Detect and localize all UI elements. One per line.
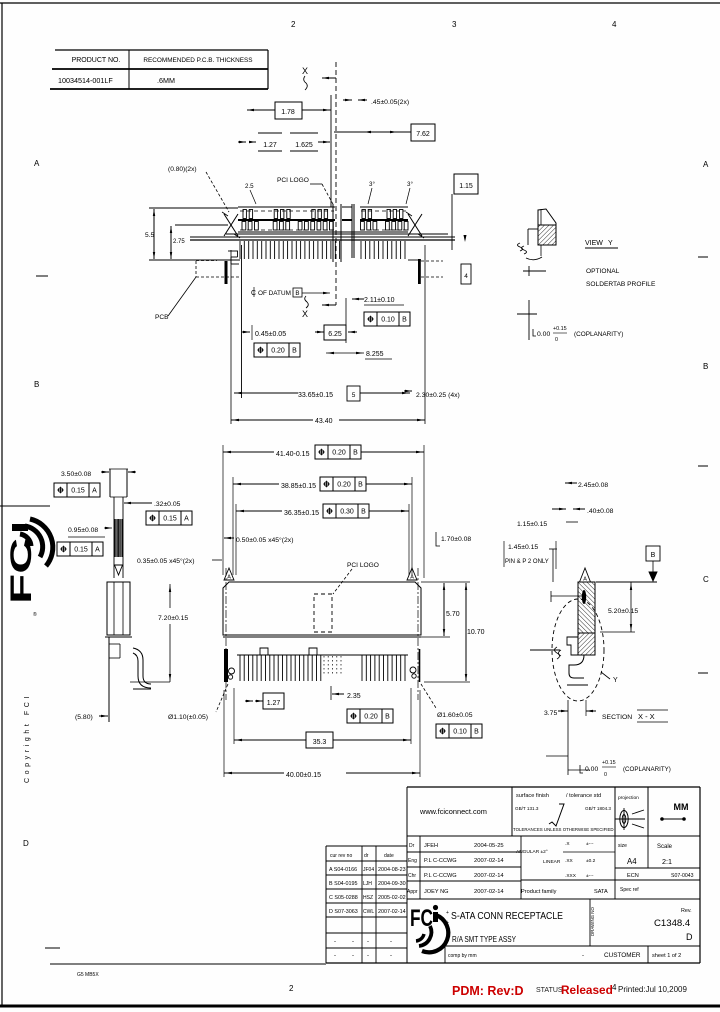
svg-text:1.27: 1.27 xyxy=(263,142,277,149)
sheet left border line xyxy=(1,3,3,1006)
dimension 7.62 boxed xyxy=(411,124,435,141)
svg-text:2.75: 2.75 xyxy=(173,239,185,245)
svg-text:0.45±0.05: 0.45±0.05 xyxy=(255,331,286,338)
svg-text:0: 0 xyxy=(604,772,607,778)
top view band inner bottom line xyxy=(226,233,448,235)
svg-text:(COPLANARITY): (COPLANARITY) xyxy=(623,766,671,773)
svg-text:+: + xyxy=(446,920,449,926)
svg-text:0.20: 0.20 xyxy=(364,714,378,721)
svg-text:0.20: 0.20 xyxy=(337,482,351,489)
middle view body outline xyxy=(223,582,421,635)
svg-text:38.85±0.15: 38.85±0.15 xyxy=(281,483,316,490)
top view break symbol right xyxy=(408,214,422,236)
dimension 38.85±0.15 with gdt xyxy=(233,483,279,485)
svg-text:SECTION: SECTION xyxy=(602,714,632,721)
middle view right peg bar xyxy=(419,649,421,682)
svg-text:1.625: 1.625 xyxy=(295,142,313,149)
svg-text:VIEW: VIEW xyxy=(585,240,603,247)
gdt frame 0.15 A below .32 xyxy=(146,511,192,525)
middle view datum A triangle left corner xyxy=(224,568,234,580)
svg-text:-: - xyxy=(390,939,392,945)
svg-text:S07-0043: S07-0043 xyxy=(671,873,694,879)
svg-text:2: 2 xyxy=(291,20,296,29)
top view right peg hidden lines dashed xyxy=(421,260,443,262)
svg-text:10.70: 10.70 xyxy=(467,629,485,636)
scale cell xyxy=(647,836,649,868)
title block outer frame xyxy=(407,786,700,788)
svg-text:comp by mm: comp by mm xyxy=(448,953,477,959)
svg-text:projection: projection xyxy=(618,795,639,801)
svg-text:Released: Released xyxy=(561,983,613,997)
svg-text:B: B xyxy=(358,482,363,489)
svg-text:dr: dr xyxy=(364,853,369,859)
middle view lead comb hidden dotted xyxy=(323,656,325,676)
svg-text:GB/T 131.3: GB/T 131.3 xyxy=(515,806,539,811)
top view band dashed pad line lower xyxy=(240,229,334,231)
svg-text:33.65±0.15: 33.65±0.15 xyxy=(298,392,333,399)
middle view key bump left xyxy=(260,648,268,655)
middle view lead comb top bar xyxy=(237,654,408,656)
svg-text:.XX: .XX xyxy=(565,858,574,864)
dimension 2.35 xyxy=(330,686,332,700)
svg-text:3°: 3° xyxy=(407,181,413,188)
svg-text:-: - xyxy=(390,953,392,959)
svg-text:PCB: PCB xyxy=(155,314,169,321)
svg-text:2007-02-14: 2007-02-14 xyxy=(378,909,406,915)
product table frame xyxy=(55,49,268,51)
svg-text:B: B xyxy=(474,729,479,736)
section line X-X vertical dashed centerline xyxy=(335,62,337,305)
svg-text:A: A xyxy=(703,160,709,169)
svg-text:Chr: Chr xyxy=(408,873,416,879)
gdt frame 0.15 A below 0.95 xyxy=(57,542,103,556)
dimension 2.30±0.25 (4x) xyxy=(405,390,412,392)
top view power pads upper row xyxy=(362,210,365,219)
dimension 5.70 right of body xyxy=(421,581,470,583)
svg-text:2007-02-14: 2007-02-14 xyxy=(474,889,504,895)
extension line for 1.78/1.625 xyxy=(330,95,332,207)
svg-text:-: - xyxy=(582,953,584,959)
svg-text:JOEY NG: JOEY NG xyxy=(424,889,448,895)
FCI logo title block xyxy=(410,905,448,952)
svg-text:C S05-0288: C S05-0288 xyxy=(329,895,358,901)
dimension 2.75 vertical xyxy=(170,226,172,259)
svg-text:2004-09-30: 2004-09-30 xyxy=(378,881,406,887)
view Y seating plane cross xyxy=(528,266,530,276)
svg-text:7.20±0.15: 7.20±0.15 xyxy=(158,615,188,622)
svg-text:ECN: ECN xyxy=(627,873,639,879)
svg-text:1.70±0.08: 1.70±0.08 xyxy=(441,536,471,543)
svg-text:2004-05-25: 2004-05-25 xyxy=(474,843,504,849)
svg-text:LINEAR: LINEAR xyxy=(543,859,561,865)
svg-text:10034514-001LF: 10034514-001LF xyxy=(58,76,113,85)
svg-text:JFEH: JFEH xyxy=(424,843,438,849)
section X-X contact lower hatched block xyxy=(578,633,595,655)
zone divider dash left lower xyxy=(45,947,60,949)
top view SMT lead comb right group xyxy=(360,241,362,259)
svg-text:PCI LOGO: PCI LOGO xyxy=(347,562,379,569)
dimension 1.15 boxed with leader xyxy=(454,174,478,194)
svg-text:Scale: Scale xyxy=(657,844,673,850)
dimension 1.27 xyxy=(258,132,282,134)
svg-text:X: X xyxy=(302,309,308,319)
svg-text:0.20: 0.20 xyxy=(332,450,346,457)
svg-text:P.L C-CCWG: P.L C-CCWG xyxy=(424,858,457,864)
svg-text:Eng: Eng xyxy=(408,858,417,864)
svg-text:®: ® xyxy=(33,611,37,618)
svg-text:0.00: 0.00 xyxy=(585,766,598,773)
svg-text:D: D xyxy=(23,839,29,848)
svg-text:CUSTOMER: CUSTOMER xyxy=(604,952,641,959)
middle view key bump right xyxy=(309,648,317,655)
top view band dashed pad line upper xyxy=(240,210,334,212)
dimension 35.3 boxed xyxy=(233,688,235,744)
projection cell xyxy=(614,787,616,836)
svg-text:+: + xyxy=(446,930,449,936)
view Y lead squiggle xyxy=(518,243,527,254)
view Y coplanarity centerline cross xyxy=(528,300,530,340)
section X-X datum A triangle on contact tip xyxy=(580,568,591,582)
svg-text:Y: Y xyxy=(608,240,613,247)
svg-text:2007-02-14: 2007-02-14 xyxy=(474,873,504,879)
PCI LOGO dashed rectangle xyxy=(314,594,332,632)
svg-text:±0.2: ±0.2 xyxy=(586,858,596,864)
svg-text:PCI LOGO: PCI LOGO xyxy=(277,177,309,184)
svg-text:PRODUCT NO.: PRODUCT NO. xyxy=(72,57,121,64)
svg-text:Printed:Jul 10,2009: Printed:Jul 10,2009 xyxy=(618,985,687,994)
revision table frame xyxy=(325,846,327,963)
svg-text:2.11±0.10: 2.11±0.10 xyxy=(364,297,395,304)
svg-text:B: B xyxy=(353,450,358,457)
sheet top border line xyxy=(0,2,720,4)
section X-X housing step xyxy=(567,637,578,655)
note flag 4 boxed xyxy=(461,264,471,284)
section arrow X top xyxy=(322,77,336,79)
svg-text:.40±0.08: .40±0.08 xyxy=(587,508,614,515)
svg-text:+0.15: +0.15 xyxy=(553,326,567,332)
view Y coplanarity dimension xyxy=(533,329,536,336)
svg-text:RECOMMENDED P.C.B. THICKNESS: RECOMMENDED P.C.B. THICKNESS xyxy=(143,57,252,64)
side profile inner blade xyxy=(113,497,115,578)
svg-text:A S04-0166: A S04-0166 xyxy=(329,867,357,873)
section X-X contact dimple xyxy=(582,590,586,604)
svg-text:2.5: 2.5 xyxy=(245,183,254,190)
gdt frame 0.15 A below 3.50 xyxy=(54,483,100,497)
top view signal pads lower row xyxy=(242,222,246,231)
FCI corporate logo left margin xyxy=(5,517,53,604)
dimension 5.20±0.15 xyxy=(596,581,635,583)
svg-text:0.50±0.05 x45°(2x): 0.50±0.05 x45°(2x) xyxy=(236,536,293,544)
svg-text:(COPLANARITY): (COPLANARITY) xyxy=(574,331,623,338)
side profile housing below xyxy=(108,637,110,722)
svg-text:D: D xyxy=(686,932,693,942)
side profile SMT lead xyxy=(133,648,151,684)
dimension 1.27 boxed middle view xyxy=(263,693,284,709)
svg-text:C: C xyxy=(251,290,256,297)
drawing number column divider xyxy=(589,899,591,946)
dimension 7.20±0.15 xyxy=(169,584,171,608)
svg-text:P.L C-CCWG: P.L C-CCWG xyxy=(424,873,457,879)
svg-text:1.15±0.15: 1.15±0.15 xyxy=(517,521,547,528)
svg-text:B: B xyxy=(651,552,656,559)
svg-text:PDM: Rev:D: PDM: Rev:D xyxy=(452,984,524,998)
svg-text:0.30: 0.30 xyxy=(340,509,354,516)
dimension 2.45±0.08 xyxy=(565,482,572,484)
dimension 1.70±0.08 xyxy=(436,532,440,546)
top view left peg hidden PCB edge dashed xyxy=(195,261,197,277)
section X-X dashed detail ellipse xyxy=(552,599,604,701)
dimension 36.35±0.15 with gdt xyxy=(236,510,282,512)
svg-text:36.35±0.15: 36.35±0.15 xyxy=(284,510,319,517)
datum B flag on seating plane xyxy=(646,546,660,561)
label Y with leader xyxy=(601,672,610,679)
svg-text:R/A SMT TYPE ASSY: R/A SMT TYPE ASSY xyxy=(452,935,517,944)
svg-text:/ tolerance std: / tolerance std xyxy=(566,793,601,799)
top view extension vertical below comb xyxy=(241,245,243,398)
svg-text:A4: A4 xyxy=(627,857,637,866)
svg-text:2: 2 xyxy=(289,984,294,993)
svg-text:G5 MB5X: G5 MB5X xyxy=(77,972,99,978)
middle view datum A triangle right corner xyxy=(407,568,417,580)
middle view peg centerline left xyxy=(225,568,227,700)
svg-text:SATA: SATA xyxy=(594,889,608,895)
svg-text:-: - xyxy=(352,953,354,959)
approval column grid xyxy=(419,836,421,899)
svg-text:A: A xyxy=(95,547,100,554)
dimension 41.40-0.15 with gdt xyxy=(223,451,274,453)
section X-X contact upper hatched xyxy=(578,582,595,633)
frame line above footer xyxy=(50,963,326,965)
svg-text:Copyright FCI: Copyright FCI xyxy=(24,693,31,783)
dimension 43.40 overall top view xyxy=(230,250,232,424)
dimension 5.5 vertical xyxy=(153,209,155,259)
svg-text:FC: FC xyxy=(5,538,38,604)
dimension 1.625 xyxy=(290,132,318,134)
svg-text:0.35±0.05 x45°(2x): 0.35±0.05 x45°(2x) xyxy=(137,557,194,565)
svg-text:(0.80)(2x): (0.80)(2x) xyxy=(168,166,197,173)
top view right retention peg xyxy=(408,259,421,261)
svg-text:B: B xyxy=(402,317,407,324)
svg-text:(5.80): (5.80) xyxy=(75,714,93,721)
svg-text:2005-02-02: 2005-02-02 xyxy=(378,895,406,901)
svg-text:HSZ: HSZ xyxy=(363,895,373,901)
svg-text:ANGULAR ±2°: ANGULAR ±2° xyxy=(516,849,548,855)
top view: body mid extension line xyxy=(175,224,228,226)
svg-text:-: - xyxy=(334,939,336,945)
svg-text:0.10: 0.10 xyxy=(381,317,395,324)
svg-text:0.15: 0.15 xyxy=(163,516,177,523)
dimension 10.70 right of body xyxy=(424,681,470,683)
section X-X seating plane line xyxy=(596,581,657,583)
svg-text:±---: ±--- xyxy=(586,873,594,879)
svg-text:A: A xyxy=(184,516,189,523)
svg-text:5: 5 xyxy=(352,392,356,399)
svg-text:C1348.4: C1348.4 xyxy=(654,918,691,929)
top view power pads lower row xyxy=(361,222,365,231)
svg-text:Ø1.60±0.05: Ø1.60±0.05 xyxy=(437,712,473,719)
svg-text:Rev.: Rev. xyxy=(681,908,692,914)
svg-text:5.5: 5.5 xyxy=(145,232,154,239)
svg-text:-: - xyxy=(334,953,336,959)
section X-X centerline below xyxy=(567,700,569,775)
svg-text:3: 3 xyxy=(452,20,457,29)
svg-text:JF04: JF04 xyxy=(363,867,374,873)
svg-text:1.45±0.15: 1.45±0.15 xyxy=(508,544,538,551)
gdt frame 0.20 B below 2.35 xyxy=(347,709,393,723)
side profile lower blade xyxy=(107,582,130,635)
svg-text:-: - xyxy=(352,939,354,945)
middle view lead comb left group xyxy=(239,655,241,681)
svg-text:A: A xyxy=(227,575,231,581)
svg-text:B: B xyxy=(295,290,299,297)
section arrow X bottom xyxy=(322,304,336,306)
svg-text:MM: MM xyxy=(674,802,689,812)
top view break symbol left xyxy=(224,214,238,236)
svg-text:3.50±0.08: 3.50±0.08 xyxy=(61,471,91,478)
svg-text:4: 4 xyxy=(612,20,617,29)
svg-text:B: B xyxy=(385,714,390,721)
zone divider dash left mid xyxy=(0,505,50,507)
svg-text:43.40: 43.40 xyxy=(315,418,333,425)
zone divider dash right upper xyxy=(698,256,708,258)
svg-text:Product family: Product family xyxy=(521,889,557,895)
svg-text:S-ATA CONN RECEPTACLE: S-ATA CONN RECEPTACLE xyxy=(451,911,563,922)
svg-text:2007-02-14: 2007-02-14 xyxy=(474,858,504,864)
svg-text:Ø1.10(±0.05): Ø1.10(±0.05) xyxy=(168,714,208,721)
svg-text:+: + xyxy=(446,910,449,916)
zone divider dash right mid xyxy=(698,465,708,467)
svg-text:PIN & P 2 ONLY: PIN & P 2 ONLY xyxy=(505,559,549,565)
svg-text:OF DATUM: OF DATUM xyxy=(258,290,291,297)
svg-text:X - X: X - X xyxy=(638,712,655,721)
svg-text:SOLDERTAB PROFILE: SOLDERTAB PROFILE xyxy=(586,281,656,288)
view Y tab bracket housing xyxy=(528,228,538,230)
section X-X bracket 1.45 extension xyxy=(552,549,554,582)
top view: pad-top extension line xyxy=(149,207,238,209)
svg-text:D S07-3063: D S07-3063 xyxy=(329,909,358,915)
svg-text:6.25: 6.25 xyxy=(328,331,342,338)
bottom row of title block xyxy=(445,945,700,947)
svg-text:2.45±0.08: 2.45±0.08 xyxy=(578,482,608,489)
side profile upper body xyxy=(109,469,111,497)
PCB surface line 1 xyxy=(190,236,455,238)
gdt frame 0.10 B below dia 1.60 xyxy=(436,724,482,738)
units cell MM xyxy=(647,787,649,836)
top view signal pads upper row xyxy=(243,210,246,219)
svg-text:GB/T 1804.3: GB/T 1804.3 xyxy=(585,806,611,811)
dimension .40±0.08 xyxy=(559,508,566,510)
middle view peg centerline right xyxy=(417,568,419,700)
section X-X dim pointer 1.15 xyxy=(551,595,584,597)
gdt frame 0.20 B below 0.45 xyxy=(254,343,300,357)
svg-text:B: B xyxy=(703,362,708,371)
leader dashed from left peg to dia 1.10 xyxy=(216,684,228,712)
svg-text:0.95±0.08: 0.95±0.08 xyxy=(68,527,98,534)
gdt frame 0.10 B below 2.11 xyxy=(364,312,410,326)
svg-text:.45±0.05(2x): .45±0.05(2x) xyxy=(371,99,409,106)
svg-text:A: A xyxy=(34,159,40,168)
svg-text:.X: .X xyxy=(565,841,570,847)
svg-text:cur rev no: cur rev no xyxy=(330,853,352,859)
svg-text:sheet 1 of 2: sheet 1 of 2 xyxy=(652,953,681,959)
svg-text:CWL: CWL xyxy=(363,909,374,915)
top view: lead-tip extension line xyxy=(149,259,240,261)
svg-text:size: size xyxy=(618,843,627,849)
svg-text:2:1: 2:1 xyxy=(662,857,672,866)
svg-text:B: B xyxy=(34,380,39,389)
dimension 0.50±0.05 x45(2x) xyxy=(224,537,231,539)
svg-text:B: B xyxy=(292,348,297,355)
top view SMT lead comb left group xyxy=(239,241,241,259)
svg-text:0.20: 0.20 xyxy=(271,348,285,355)
svg-text:2.30±0.25 (4x): 2.30±0.25 (4x) xyxy=(416,392,460,399)
svg-text:±---: ±--- xyxy=(586,841,594,847)
svg-text:.32±0.05: .32±0.05 xyxy=(154,501,181,508)
svg-text:STATUS: STATUS xyxy=(536,987,563,994)
dimension 6.25 boxed xyxy=(324,325,346,340)
svg-text:1.78: 1.78 xyxy=(281,109,295,116)
svg-text:8.255: 8.255 xyxy=(366,351,384,358)
PCB surface line 2 xyxy=(190,239,455,241)
section coplanarity dimension xyxy=(546,755,568,757)
svg-text:date: date xyxy=(384,853,394,859)
size cell xyxy=(614,836,616,899)
dimension .45±0.05(2x) xyxy=(345,99,352,101)
svg-text:3°: 3° xyxy=(369,181,375,188)
dimension 33.65±0.15 with flag 5 xyxy=(234,392,298,394)
side profile contact hatch xyxy=(114,519,116,557)
sheet bottom heavy border line xyxy=(0,1005,720,1008)
zone divider dash right lower xyxy=(698,672,708,674)
svg-text:Appr: Appr xyxy=(407,889,418,895)
svg-text:3.75: 3.75 xyxy=(544,710,557,717)
svg-text:surface finish: surface finish xyxy=(516,793,549,799)
svg-text:2004-08-23: 2004-08-23 xyxy=(378,867,406,873)
svg-text:C: C xyxy=(703,575,709,584)
svg-text:7.62: 7.62 xyxy=(416,131,430,138)
svg-text:Y: Y xyxy=(613,677,618,684)
svg-text:.6MM: .6MM xyxy=(157,76,175,85)
svg-text:0: 0 xyxy=(555,337,558,343)
svg-text:5.20±0.15: 5.20±0.15 xyxy=(608,608,638,615)
svg-text:4: 4 xyxy=(464,273,468,280)
top view left retention peg side view xyxy=(220,259,238,261)
svg-text:Spec ref: Spec ref xyxy=(620,887,639,893)
svg-text:5.70: 5.70 xyxy=(446,611,460,618)
svg-text:0.00: 0.00 xyxy=(537,331,550,338)
svg-text:LJH: LJH xyxy=(363,881,372,887)
svg-text:Dr: Dr xyxy=(409,843,415,849)
ECN row xyxy=(615,867,700,869)
svg-text:41.40-0.15: 41.40-0.15 xyxy=(276,451,310,458)
svg-text:0.10: 0.10 xyxy=(453,729,467,736)
svg-text:.XXX: .XXX xyxy=(565,873,577,879)
svg-text:OPTIONAL: OPTIONAL xyxy=(586,268,620,275)
svg-text:40.00±0.15: 40.00±0.15 xyxy=(286,772,321,779)
middle view left peg bar xyxy=(224,649,228,682)
svg-text:www.fciconnect.com: www.fciconnect.com xyxy=(419,807,487,816)
dimension 8.255 xyxy=(326,352,364,354)
svg-text:B: B xyxy=(361,509,366,516)
svg-text:A: A xyxy=(410,575,414,581)
svg-text:-: - xyxy=(367,953,369,959)
title block line under top row xyxy=(407,835,700,837)
svg-text:2.35: 2.35 xyxy=(347,693,361,700)
section X-X pcb pad line with squiggle xyxy=(530,649,560,651)
top view body band outline xyxy=(238,206,335,208)
svg-text:TOLERANCES UNLESS OTHERWISE SP: TOLERANCES UNLESS OTHERWISE SPECIFIED xyxy=(513,827,614,832)
svg-text:-: - xyxy=(367,939,369,945)
